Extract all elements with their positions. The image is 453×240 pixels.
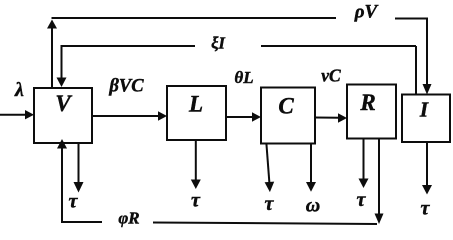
svg-text:ρV: ρV [354, 2, 379, 23]
box V [34, 88, 92, 143]
wire omega out of C bottom [306, 144, 316, 192]
label tau under L [191, 190, 201, 212]
label betaVC [108, 77, 144, 97]
label C [278, 94, 294, 119]
svg-text:L: L [188, 92, 203, 117]
svg-text:τ: τ [421, 198, 431, 220]
svg-text:ξI: ξI [211, 34, 225, 53]
label tau under I [421, 198, 431, 220]
wire phiR: bottom right segment [153, 223, 377, 225]
svg-text:τ: τ [191, 190, 201, 212]
svg-text:R: R [359, 90, 375, 115]
wire L to C arrow [226, 112, 261, 121]
label tau under V [69, 191, 79, 213]
wire V to L arrow [92, 111, 167, 120]
wire xiI: down arrowhead into V top [57, 78, 67, 88]
svg-text:νC: νC [321, 66, 341, 86]
svg-text:τ: τ [265, 193, 275, 215]
wire R long down into phiR line with arrowhead [375, 139, 384, 225]
label I [419, 98, 429, 122]
svg-text:θL: θL [234, 68, 253, 87]
box C [261, 88, 315, 144]
wire rhoV: V up segment with up arrowhead [47, 20, 57, 89]
wire rhoV: down arrowhead into I top [423, 84, 432, 95]
label omega under C [306, 195, 320, 217]
wire tau out of R bottom [359, 139, 369, 189]
wire rhoV: top horizontal right segment with corner [395, 19, 427, 87]
svg-text:τ: τ [69, 191, 79, 213]
label tau under R [357, 189, 367, 211]
wire rhoV: top horizontal left segment [52, 17, 337, 19]
label thetaL [234, 68, 253, 87]
svg-text:βVC: βVC [108, 77, 144, 97]
svg-text:λ: λ [14, 79, 24, 101]
label xiI [211, 34, 225, 53]
wire tau out of L bottom [191, 140, 201, 189]
svg-text:τ: τ [357, 189, 367, 211]
svg-text:ω: ω [306, 195, 320, 217]
label lambda [14, 79, 24, 101]
wire xiI: horizontal right segment [261, 45, 416, 47]
wire xiI: horizontal left segment with corner down to V [62, 46, 196, 79]
wire tau out of I bottom [422, 142, 432, 195]
box R [347, 85, 396, 139]
svg-text:C: C [278, 94, 294, 119]
wire C to R arrow [315, 113, 347, 122]
label phiR [118, 209, 139, 228]
wire phiR: vertical below V and bottom-left segment [62, 147, 102, 222]
box L [167, 86, 226, 140]
wire tau out of V bottom [74, 143, 84, 193]
wire lambda input arrow into V [0, 110, 34, 119]
wire phiR: up arrowhead into V bottom [57, 139, 67, 149]
label L [188, 92, 203, 117]
svg-text:V: V [55, 91, 72, 116]
label rhoV [354, 2, 379, 23]
label R [359, 90, 375, 115]
label tau under C [265, 193, 275, 215]
wire tau out of C bottom [265, 144, 275, 193]
svg-text:φR: φR [118, 209, 139, 228]
svg-text:I: I [419, 98, 429, 122]
label V [55, 91, 72, 116]
wire xiI: up segment from I top [415, 46, 417, 95]
box I [402, 95, 450, 143]
label nuC [321, 66, 341, 86]
